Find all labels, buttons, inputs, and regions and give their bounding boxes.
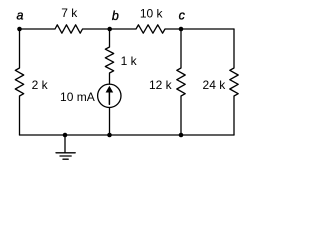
svg-text:b: b (112, 9, 119, 23)
svg-text:24 k: 24 k (203, 78, 227, 92)
svg-text:c: c (179, 9, 186, 23)
svg-text:10 mA: 10 mA (60, 90, 95, 104)
svg-text:2 k: 2 k (32, 78, 49, 92)
svg-text:7 k: 7 k (61, 6, 78, 20)
svg-text:a: a (17, 9, 24, 23)
svg-text:1 k: 1 k (121, 54, 138, 68)
svg-text:10 k: 10 k (140, 6, 164, 20)
svg-text:12 k: 12 k (149, 78, 173, 92)
